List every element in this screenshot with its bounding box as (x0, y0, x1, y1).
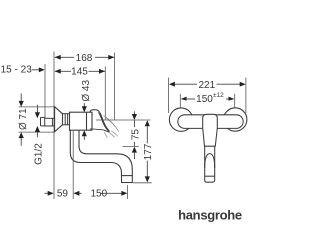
svg-text:145: 145 (71, 67, 88, 78)
dimension 177 (133, 120, 154, 183)
body front view (203, 114, 218, 146)
supply pipe (41, 117, 55, 126)
escutcheon left front view (169, 108, 192, 131)
svg-text:Ø 71: Ø 71 (18, 108, 29, 130)
svg-text:hansgrohe: hansgrohe (178, 207, 242, 222)
faucet body side view (70, 112, 93, 130)
dimension 15 - 23 (1, 64, 45, 118)
handle side view dashed swivel position (104, 116, 119, 138)
dimension D71 (18, 94, 29, 146)
spout (70, 130, 132, 182)
dimension 145 (55, 67, 106, 121)
svg-text:G1/2: G1/2 (34, 143, 45, 165)
wire wall face extension line (53, 52, 55, 200)
dimension 59 and 150 bottom (45, 131, 128, 199)
svg-text:75: 75 (131, 129, 142, 141)
svg-text:221: 221 (198, 80, 215, 91)
lever front view (205, 146, 215, 182)
dimension D71 extension lines (19, 106, 55, 108)
svg-text:59: 59 (57, 188, 69, 199)
handle side view solid (90, 110, 110, 133)
connection nut (63, 114, 70, 125)
escutcheon right front view (224, 108, 247, 131)
dimension G1/2 (34, 105, 45, 165)
flange escutcheon cone (55, 107, 63, 132)
svg-text:±12: ±12 (213, 92, 224, 99)
svg-text:150: 150 (196, 94, 213, 105)
dimension 168 (55, 53, 115, 121)
axis reference line (96, 119, 151, 121)
dimension D43 (81, 80, 92, 140)
svg-text:150: 150 (90, 188, 107, 199)
dimension 75 (123, 111, 142, 159)
union bar front view (178, 115, 243, 129)
svg-text:168: 168 (76, 53, 93, 64)
dimension 221 (169, 78, 246, 114)
svg-text:15 - 23: 15 - 23 (1, 65, 33, 76)
svg-text:177: 177 (143, 143, 154, 160)
dimension 150 +/-12 (180, 92, 234, 108)
svg-text:Ø 43: Ø 43 (81, 80, 92, 102)
